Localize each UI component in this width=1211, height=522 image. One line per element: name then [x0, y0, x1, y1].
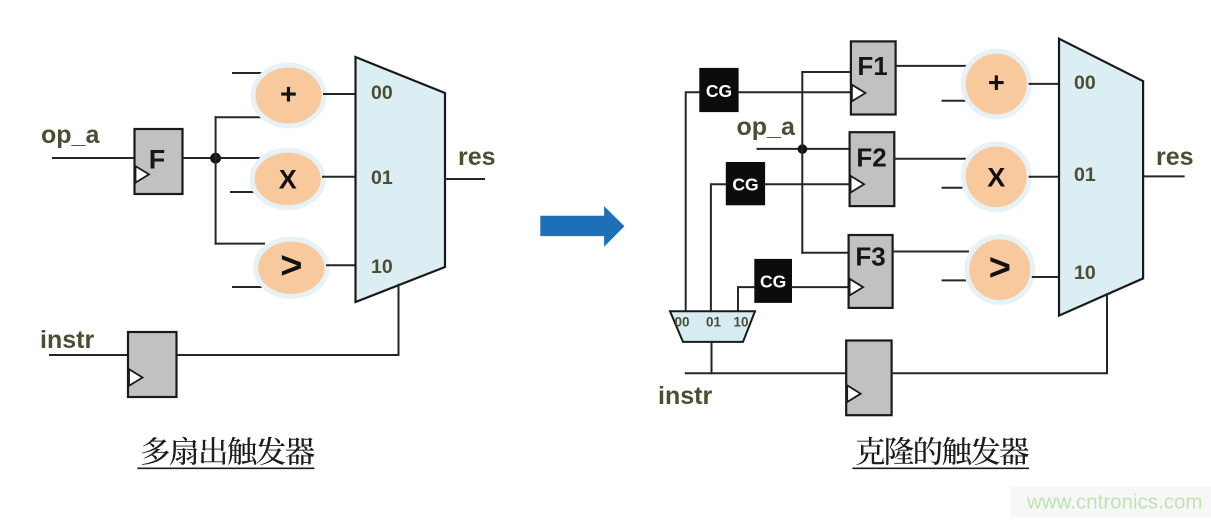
- multiplier circle x: [252, 150, 323, 207]
- svg-text:op_a: op_a: [737, 113, 796, 141]
- wire F1 to adder: [896, 65, 966, 67]
- wire CG2 gated clock to F2: [765, 183, 850, 185]
- instr flip-flop (right): [846, 341, 891, 416]
- svg-text:CG: CG: [706, 81, 732, 101]
- svg-text:F2: F2: [856, 143, 886, 173]
- wire mux output res (right): [1143, 175, 1184, 177]
- wire second operand stub of comparator (right): [943, 279, 973, 281]
- flip-flop F2: [850, 132, 895, 206]
- wire multiplier to mux input 01: [323, 176, 357, 178]
- node instr (right input label): [658, 382, 712, 410]
- wire op_a branch to F1 data: [802, 71, 851, 73]
- svg-text:01: 01: [1074, 164, 1096, 186]
- svg-text:X: X: [987, 163, 1005, 193]
- wire F output to junction: [183, 157, 216, 159]
- wire mux output res (left): [445, 178, 484, 180]
- svg-text:op_a: op_a: [41, 121, 100, 149]
- svg-text:CG: CG: [760, 272, 786, 292]
- svg-text:01: 01: [371, 167, 393, 189]
- svg-text:>: >: [989, 247, 1011, 289]
- wire multiplier to mux input 01 (right): [1030, 176, 1060, 178]
- flip-flop F: [135, 129, 183, 194]
- svg-text:res: res: [458, 143, 496, 171]
- wire second operand stub of multiplier: [231, 191, 257, 193]
- clock gate CG1: [699, 68, 738, 112]
- wire adder to mux input 00 (right): [1030, 83, 1060, 85]
- result mux (left): [356, 57, 446, 302]
- caption underline (left): [137, 467, 314, 469]
- wire adder to mux input 00: [324, 93, 357, 95]
- node res (right output label): [1156, 143, 1194, 171]
- wire comparator to mux input 10 (right): [1033, 276, 1060, 278]
- svg-text:F: F: [149, 145, 166, 175]
- wire op_a input to F: [53, 157, 135, 159]
- caption underline (right): [852, 467, 1029, 469]
- comparator circle > (right): [967, 237, 1033, 303]
- wire CG3 enable from decode mux output 10: [738, 287, 754, 311]
- svg-text:www.cntronics.com: www.cntronics.com: [1026, 491, 1202, 514]
- wire second operand stub of adder (right): [943, 100, 972, 102]
- clock gate CG2: [726, 162, 765, 205]
- wire mux select from instr flip-flop (left): [177, 285, 399, 355]
- wire branch to comparator: [216, 243, 264, 245]
- wire instr flip-flop to result mux select (right): [892, 294, 1107, 373]
- wire instr input (right): [686, 372, 846, 374]
- svg-text:+: +: [280, 79, 297, 111]
- svg-text:00: 00: [371, 82, 393, 104]
- svg-text:10: 10: [1074, 262, 1096, 284]
- svg-text:01: 01: [706, 315, 722, 330]
- svg-text:>: >: [280, 245, 302, 287]
- comparator circle >: [256, 239, 327, 296]
- wire op_a trunk vertical (right): [801, 72, 803, 253]
- wire fanout trunk vertical: [215, 117, 217, 243]
- node op_a (left input label): [41, 121, 100, 149]
- wire branch to adder: [216, 116, 262, 118]
- node res (left output label): [458, 143, 496, 171]
- instr flip-flop (left): [128, 332, 177, 397]
- node op_a (right input label): [737, 113, 796, 141]
- wire CG1 gated clock to F1: [739, 91, 851, 93]
- svg-text:instr: instr: [658, 382, 712, 410]
- wire CG2 enable from decode mux output 01: [711, 184, 726, 311]
- svg-text:instr: instr: [40, 326, 94, 354]
- multiplier circle x (right): [963, 144, 1029, 210]
- adder circle + (right): [963, 51, 1029, 117]
- wire F3 to comparator: [893, 251, 968, 253]
- wire CG1 enable from decode mux output 00: [686, 92, 700, 311]
- svg-text:10: 10: [371, 256, 393, 278]
- clock gate CG3: [754, 259, 792, 303]
- adder circle +: [253, 65, 324, 126]
- svg-text:F3: F3: [855, 242, 885, 272]
- svg-text:X: X: [279, 165, 297, 195]
- transform arrow: [540, 206, 624, 247]
- caption 克隆的触发器 (cloned flip-flops): [856, 437, 1028, 465]
- wire op_a branch to F3 data: [802, 252, 848, 254]
- caption 多扇出触发器 (multi-fanout flip-flop): [142, 437, 315, 466]
- wire second operand stub of multiplier (right): [943, 187, 972, 189]
- watermark background: [1011, 487, 1211, 517]
- wire F2 to multiplier: [894, 158, 966, 160]
- result mux (right): [1059, 39, 1143, 316]
- svg-text:CG: CG: [732, 174, 758, 194]
- svg-text:00: 00: [674, 315, 689, 330]
- node instr (left input label): [40, 326, 94, 354]
- wire junction to multiplier: [216, 157, 259, 159]
- svg-text:+: +: [988, 68, 1005, 100]
- wire decode mux select input: [711, 342, 713, 373]
- svg-text:F1: F1: [857, 51, 887, 81]
- junction dot op_a (right): [798, 144, 808, 154]
- flip-flop F3: [849, 235, 893, 308]
- svg-text:00: 00: [1074, 72, 1096, 94]
- junction dot (fanout node): [210, 153, 221, 164]
- wire second operand stub of adder: [233, 72, 262, 74]
- wire op_a input to junction and F2: [758, 148, 850, 150]
- flip-flop F1: [851, 41, 896, 114]
- svg-text:10: 10: [733, 315, 748, 330]
- svg-text:res: res: [1156, 143, 1194, 171]
- wire comparator to mux input 10: [327, 264, 357, 266]
- wire CG3 gated clock to F3: [792, 286, 849, 288]
- wire second operand stub of comparator: [233, 286, 262, 288]
- wire instr input (left): [50, 354, 128, 356]
- select decode mux (small, right): [670, 311, 755, 342]
